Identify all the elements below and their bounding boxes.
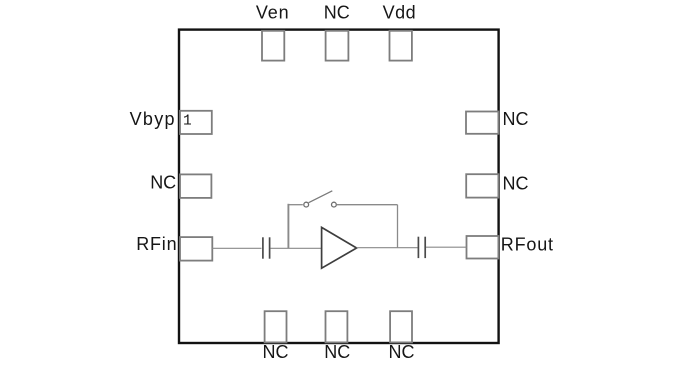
- wire amplifier output to C2: [357, 247, 418, 249]
- pin pad NC (bottom right): [390, 311, 412, 342]
- pin pad RFin (left): [180, 237, 212, 261]
- pin pad NC (right top): [466, 112, 498, 134]
- pin pad NC (top middle): [326, 31, 349, 61]
- svg-text:1: 1: [183, 114, 192, 130]
- pin pad NC (left middle): [180, 174, 211, 198]
- svg-text:NC: NC: [263, 342, 289, 362]
- svg-text:Vdd: Vdd: [383, 2, 417, 22]
- wire vertical down to output: [397, 205, 399, 248]
- svg-text:Ven: Ven: [256, 2, 290, 22]
- svg-text:NC: NC: [324, 2, 350, 22]
- svg-text:NC: NC: [150, 172, 176, 192]
- pin pad NC (bottom middle): [326, 311, 348, 342]
- pin pad NC (bottom left): [265, 311, 287, 342]
- switch S1 blade (open): [309, 191, 333, 203]
- pin pad Vbyp pin 1 (left): [180, 111, 212, 134]
- pin pad Vdd (top): [390, 31, 412, 61]
- pin pad Ven (top): [262, 31, 284, 61]
- capacitor C2 left plate: [417, 237, 419, 258]
- svg-text:RFin: RFin: [136, 234, 177, 254]
- wire vertical up to switch: [287, 204, 289, 249]
- pin pad NC (right middle): [466, 174, 498, 197]
- svg-text:NC: NC: [503, 173, 529, 193]
- svg-text:Vbyp: Vbyp: [130, 109, 176, 129]
- wire RFin pin to C1: [212, 247, 261, 249]
- op-amp U2 amplifier triangle: [322, 227, 357, 268]
- chip package body U1: [179, 30, 499, 343]
- capacitor C1 right plate: [269, 237, 271, 258]
- capacitor C2 right plate: [424, 237, 426, 258]
- switch S1 left contact: [304, 202, 309, 207]
- switch S1 right contact: [332, 202, 337, 207]
- capacitor C1 left plate: [262, 237, 264, 258]
- svg-text:NC: NC: [389, 342, 415, 362]
- wire switch branch right horizontal: [336, 204, 397, 206]
- svg-text:NC: NC: [324, 342, 350, 362]
- wire C2 to RFout pin: [426, 246, 467, 248]
- wire switch branch left horizontal: [288, 204, 303, 206]
- svg-text:NC: NC: [503, 109, 529, 129]
- wire C1 to amplifier input: [270, 247, 322, 249]
- pin pad RFout (right): [467, 236, 499, 259]
- svg-text:RFout: RFout: [501, 235, 554, 255]
